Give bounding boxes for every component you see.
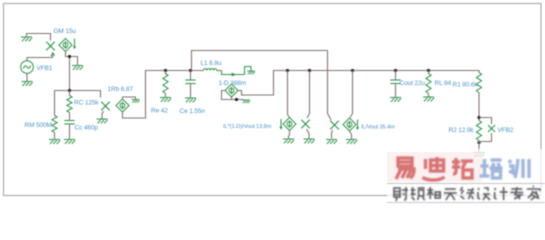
- current arrow (pair2): [356, 120, 359, 131]
- transformer 1:D primary sense path: [222, 67, 252, 75]
- svg-text:IL*(1-D)/Vout 13.8m: IL*(1-D)/Vout 13.8m: [223, 124, 272, 130]
- ground (below pair2 diamond): [346, 140, 357, 144]
- transformer arrow: [228, 73, 236, 75]
- watermark char 天: [444, 189, 457, 200]
- svg-text:GM 15u: GM 15u: [54, 28, 77, 35]
- ground (below RL): [423, 97, 434, 101]
- multiplier X (pair2): [330, 121, 339, 130]
- junction (pair2 diamond): [351, 69, 354, 72]
- wire: VFB1 to ground: [26, 74, 28, 82]
- multiplier X VFB2: [488, 125, 495, 132]
- ground (below Cc): [64, 140, 75, 144]
- ground (below Re): [160, 98, 171, 102]
- controlled source diamond GM: [59, 39, 72, 52]
- wire: duty feedback from Ce node over to X4: [192, 51, 332, 121]
- ground (top-left of GM block): [21, 37, 32, 41]
- ground (below VFB1): [22, 82, 33, 86]
- controlled source diamond (pair1): [283, 118, 296, 131]
- resistor RL 84: [426, 74, 431, 94]
- wire: VFB1 to multiplier: [27, 53, 53, 61]
- junction (Cout): [394, 69, 397, 72]
- wire: compensation node horizontal: [55, 91, 101, 116]
- watermark char 培: [480, 159, 503, 178]
- watermark char 易: [396, 158, 414, 179]
- junction (GM output): [68, 55, 71, 58]
- junction (pair1 diamond): [286, 69, 289, 72]
- mini ground (transformer reference): [247, 71, 255, 74]
- junction (R1-R2 top): [477, 116, 480, 119]
- junction (Ce node): [189, 69, 192, 72]
- wire: rail down to pair1 diamond: [288, 71, 290, 118]
- wire: RL to ground: [428, 94, 430, 97]
- inductor L1: [204, 69, 217, 71]
- wire: Ce to ground: [190, 84, 192, 98]
- ground (below pair1 diamond): [283, 139, 294, 143]
- wire: X bottom to ground (Rb block): [102, 111, 104, 119]
- ground (below R2): [474, 153, 485, 157]
- wire: rail to RL: [428, 71, 430, 74]
- controlled source diamond Rb: [116, 99, 129, 112]
- wire: RM to ground: [54, 133, 56, 140]
- svg-text:Ce 1.55n: Ce 1.55n: [180, 108, 206, 115]
- watermark char 计: [495, 187, 508, 200]
- ground (below RM): [49, 140, 60, 144]
- mini ground (Rb reference): [132, 100, 140, 103]
- ground (below pair1 X): [304, 139, 315, 143]
- wire: pair2 diamond to ground: [350, 131, 352, 139]
- wire: pair1 X to ground: [307, 129, 310, 139]
- junction (1:D reference node): [235, 98, 238, 101]
- capacitor Cc 460p: [64, 121, 74, 125]
- wire: Cc to ground: [69, 124, 71, 139]
- svg-text:RC 125k: RC 125k: [74, 100, 99, 107]
- junction (R2 bottom): [477, 141, 480, 144]
- svg-text:RM 500M: RM 500M: [25, 122, 52, 129]
- wire: R1 to R2: [478, 93, 480, 121]
- watermark char 频: [411, 187, 425, 200]
- watermark char 专: [510, 187, 523, 199]
- watermark big row: 易迪拓 (red) 培训 (blue): [396, 157, 529, 180]
- capacitor Ce 1.55n: [185, 80, 195, 84]
- wire: 1:D diamond left loop: [222, 91, 244, 100]
- wire: Rb diamond top reference: [123, 97, 136, 99]
- schematic border frame: [4, 4, 542, 196]
- watermark background band: [387, 149, 545, 205]
- wire: rail down to pair1 X: [307, 71, 310, 119]
- watermark char 家: [527, 186, 540, 200]
- multiplier X of Rb block: [101, 102, 110, 111]
- svg-text:RL 84: RL 84: [435, 80, 452, 87]
- resistor R1 80.6k: [476, 73, 481, 93]
- wire: RC to Cc: [69, 113, 71, 121]
- svg-text:L1 6.8u: L1 6.8u: [201, 60, 222, 67]
- ground (below GM diamond): [72, 66, 83, 70]
- ground (below Rb multiplier): [97, 119, 108, 123]
- wire: rail to Re: [165, 71, 167, 75]
- wire: R2 to ground: [478, 141, 480, 153]
- wire: pair1 diamond to ground: [289, 131, 290, 139]
- svg-text:R1 80.6k: R1 80.6k: [453, 82, 479, 89]
- wire: rail to Cout: [395, 71, 397, 81]
- current arrow of GM source: [73, 39, 76, 50]
- ground (below pair2 X): [326, 140, 337, 144]
- wire: L1 to transformer primary: [217, 70, 222, 72]
- ground (below Ce): [185, 98, 196, 102]
- wire: VFB2 sense bracket: [479, 118, 492, 142]
- resistor RM 500M: [52, 116, 57, 133]
- resistor Re 42: [163, 74, 168, 94]
- ground (below Cout): [390, 98, 401, 102]
- wire: Rb diamond bottom loop up to main rail: [123, 71, 204, 119]
- watermark char 线: [460, 187, 474, 199]
- controlled source diamond 1:D: [225, 84, 238, 97]
- watermark separator line upper: [387, 183, 545, 185]
- watermark char 迪: [423, 157, 445, 180]
- wire: pair2 X to ground: [332, 130, 333, 139]
- controlled source diamond (pair2): [343, 118, 356, 131]
- svg-text:Re 42: Re 42: [151, 108, 168, 115]
- junction (pair1 X): [308, 69, 311, 72]
- svg-text:IL/Vout 35.4m: IL/Vout 35.4m: [361, 125, 395, 131]
- svg-text:VFB2: VFB2: [498, 127, 514, 134]
- current arrow (pair1): [279, 119, 282, 130]
- capacitor Cout 22u: [390, 80, 400, 84]
- wire: GM block top (ground to multiplier): [27, 34, 51, 41]
- svg-text:Cc 460p: Cc 460p: [75, 125, 99, 132]
- svg-text:1Rb 6.87: 1Rb 6.87: [108, 86, 134, 93]
- multiplier X (pair1): [301, 120, 310, 129]
- svg-text:VFB1: VFB1: [37, 65, 53, 72]
- voltage source VFB1: [21, 53, 55, 73]
- wire: Re to ground: [165, 94, 167, 98]
- watermark char 训: [509, 159, 529, 178]
- svg-text:Cout 22u: Cout 22u: [400, 80, 426, 87]
- wire: GM diamond output down to ground: [66, 52, 78, 66]
- wire: 1:D diamond bottom stub: [231, 97, 233, 100]
- wire: rail down to pair2 diamond: [350, 71, 353, 118]
- watermark char 和: [427, 187, 440, 199]
- wire: rail to Ce: [190, 71, 192, 81]
- svg-text:1-D 388m: 1-D 388m: [219, 80, 247, 87]
- watermark char 设: [478, 188, 490, 200]
- watermark char 拓: [452, 158, 473, 178]
- mini ground (1:D bottom reference): [242, 100, 250, 103]
- junction (RL): [427, 69, 430, 72]
- watermark separator line lower: [387, 202, 545, 204]
- wire: node to RC: [69, 91, 71, 96]
- resistor RC 125k: [67, 96, 72, 113]
- wire: 1:D diamond output to secondary rail: [238, 71, 479, 96]
- wire: GM output branch down to RC node: [69, 57, 71, 91]
- resistor R2 12.9k: [476, 121, 481, 141]
- junction (Re node): [164, 69, 167, 72]
- wire: Cout to ground: [395, 84, 397, 98]
- multiplier X of GM source: [46, 42, 55, 51]
- svg-text:R2 12.9k: R2 12.9k: [449, 127, 475, 134]
- watermark small row: 射频和天线设计专家: [394, 186, 540, 201]
- watermark char 射: [394, 187, 408, 201]
- junction (RC top node): [68, 89, 71, 92]
